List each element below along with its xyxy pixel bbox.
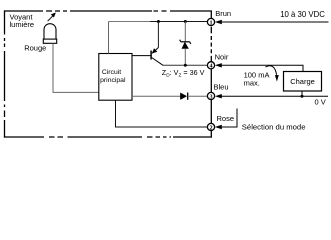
pin 4 (Noir) bbox=[207, 62, 214, 70]
wire: main circuit to diode D1 bbox=[132, 95, 180, 97]
sensor enclosure outline: bottom border (chain line) bbox=[4, 136, 212, 138]
indicator lamp emission arrow bbox=[48, 13, 56, 22]
svg-text:max.: max. bbox=[244, 79, 260, 88]
svg-text:3: 3 bbox=[209, 93, 212, 100]
node: rail / emitter junction bbox=[157, 20, 160, 23]
svg-text:Charge: Charge bbox=[290, 77, 315, 86]
diode D1 (series in 0 V line) bbox=[180, 93, 187, 100]
pin 2 (Rose) bbox=[207, 123, 214, 131]
svg-text:1: 1 bbox=[209, 19, 212, 26]
svg-text:principal: principal bbox=[100, 77, 126, 84]
wire: +V rail to pin 1 (Brun) bbox=[109, 21, 151, 23]
svg-text:Brun: Brun bbox=[215, 9, 231, 18]
svg-text:2: 2 bbox=[209, 124, 212, 131]
label Circuit principal bbox=[100, 69, 126, 84]
transistor Q1 (PNP output) bbox=[151, 48, 163, 66]
node: zener / output junction bbox=[184, 64, 187, 67]
wire: collector to pin 4 (Noir) bbox=[163, 64, 208, 66]
wire: load bottom to 0 V rail bbox=[301, 91, 303, 96]
pin 1 (Brun) bbox=[207, 18, 214, 26]
svg-text:4: 4 bbox=[209, 63, 212, 70]
svg-text:lumière: lumière bbox=[10, 20, 35, 29]
label 100 mA max. bbox=[244, 70, 270, 87]
current arrow 100 mA bbox=[266, 66, 279, 82]
wire: LED down and right into main circuit bbox=[53, 43, 99, 92]
external wire mode selection (Rose) bbox=[215, 109, 237, 130]
svg-text:Bleu: Bleu bbox=[214, 82, 229, 91]
sensor enclosure outline: left border (chain line) bbox=[4, 10, 6, 137]
external wire +V supply (Brun) bbox=[215, 20, 329, 24]
wire: emitter to +V rail bbox=[157, 22, 159, 48]
wire: base of Q1 to main circuit bbox=[132, 55, 151, 57]
label Voyant lumière bbox=[10, 13, 35, 30]
wire: main circuit top to +V rail bbox=[108, 22, 110, 54]
wire: diode D1 to pin 3 (Bleu) bbox=[188, 95, 208, 97]
main circuit block (Circuit principal) bbox=[99, 54, 132, 101]
sensor enclosure outline: right border with corner to pin 1 and dashes between pins bbox=[210, 10, 212, 137]
svg-text:Noir: Noir bbox=[215, 52, 229, 61]
svg-text:10 à 30 VDC: 10 à 30 VDC bbox=[280, 10, 325, 19]
wire: main circuit bottom to pin 2 (Rose) bbox=[116, 100, 208, 127]
pin 3 (Bleu) bbox=[207, 92, 214, 100]
svg-text:Rose: Rose bbox=[217, 114, 235, 123]
node: load / 0 V rail junction bbox=[301, 95, 304, 98]
load (Charge) bbox=[284, 72, 322, 92]
svg-text:0 V: 0 V bbox=[315, 97, 326, 106]
external 0 V rail (Bleu) bbox=[215, 94, 328, 98]
svg-text:Circuit: Circuit bbox=[102, 69, 121, 76]
zener diode ZD (36 V) bbox=[180, 40, 191, 49]
node: rail / zener junction bbox=[184, 20, 187, 23]
sensor enclosure outline: top border (chain line) bbox=[5, 10, 212, 12]
svg-text:Sélection du mode: Sélection du mode bbox=[242, 122, 306, 131]
external wire output (Noir) to load bbox=[215, 63, 303, 71]
svg-text:Rouge: Rouge bbox=[24, 44, 46, 53]
indicator lamp (Voyant lumière) dome and base bbox=[43, 24, 56, 44]
zener diode ZD top lead bbox=[184, 22, 186, 42]
zener diode ZD bottom lead bbox=[184, 49, 186, 66]
